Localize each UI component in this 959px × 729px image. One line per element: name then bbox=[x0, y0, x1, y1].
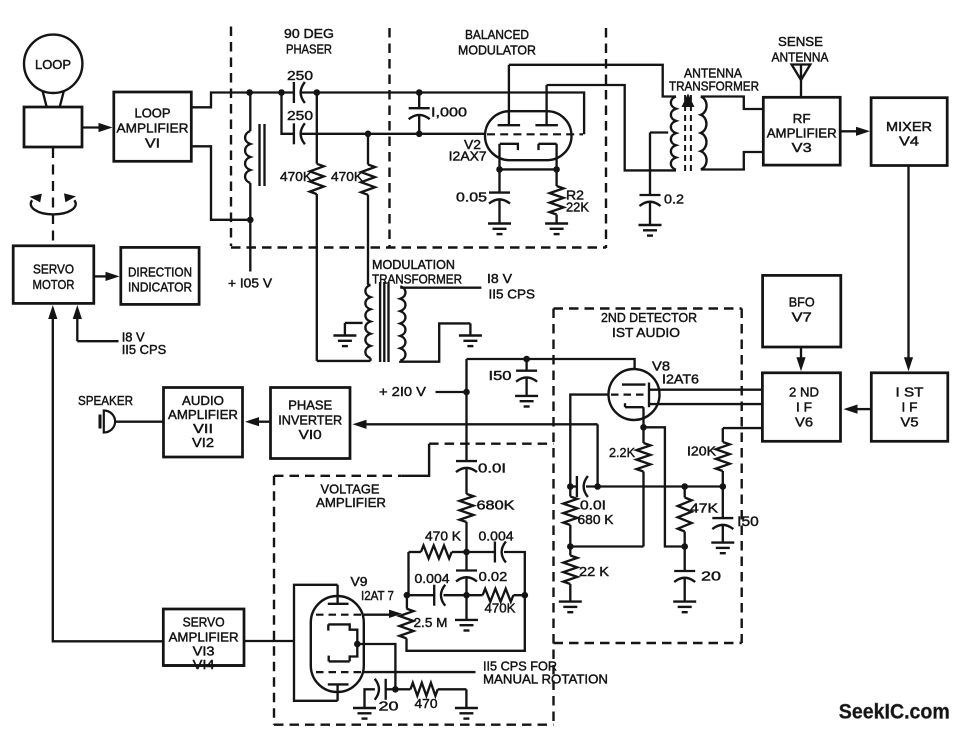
svg-text:2ND DETECTOR: 2ND DETECTOR bbox=[601, 310, 697, 325]
svg-text:TRANSFORMER: TRANSFORMER bbox=[669, 79, 759, 94]
ground bbox=[639, 224, 662, 226]
svg-text:VOLTAGE: VOLTAGE bbox=[321, 481, 380, 496]
svg-text:20: 20 bbox=[379, 699, 399, 714]
svg-text:PHASE: PHASE bbox=[288, 398, 332, 413]
V8 diode plates bbox=[648, 383, 650, 408]
node RC center bbox=[463, 592, 470, 599]
tap to 0.2 cap bbox=[650, 131, 668, 133]
svg-text:V5: V5 bbox=[901, 415, 919, 430]
V9 top plate bbox=[328, 603, 349, 605]
svg-text:DIRECTION: DIRECTION bbox=[128, 265, 192, 280]
wire cathode to 47K branch bbox=[644, 427, 685, 546]
ground bbox=[673, 600, 696, 602]
V9 bottom plate bbox=[328, 683, 349, 685]
node RC left bbox=[404, 592, 411, 599]
node 47K bottom bbox=[681, 543, 688, 550]
svg-text:MANUAL ROTATION: MANUAL ROTATION bbox=[483, 672, 608, 687]
svg-text:I50: I50 bbox=[489, 368, 512, 383]
svg-text:+ I05 V: + I05 V bbox=[228, 276, 272, 291]
V2 right cathode bbox=[537, 144, 539, 150]
2nd detector / 1st audio dashed enclosure bbox=[554, 307, 742, 309]
90 deg phaser dashed enclosure bbox=[230, 27, 232, 247]
svg-text:INVERTER: INVERTER bbox=[278, 413, 342, 428]
V8 plate bbox=[622, 383, 646, 385]
block RF AMPLIFIER V3 bbox=[763, 97, 840, 165]
svg-text:AMPLIFIER: AMPLIFIER bbox=[117, 121, 189, 136]
wire V9 upper grid to 2.5M wiper bbox=[364, 614, 391, 616]
V9 upper grid dashed bbox=[316, 614, 361, 616]
wire servo amp to V9 bbox=[244, 640, 294, 642]
wire detector node row bbox=[586, 485, 723, 487]
18V 115CPS input to servo motor bbox=[76, 319, 78, 342]
svg-text:0.05: 0.05 bbox=[456, 190, 487, 205]
capacitor 1,000 bbox=[418, 93, 420, 109]
antenna transformer secondary bbox=[701, 97, 707, 170]
svg-text:II5 CPS: II5 CPS bbox=[122, 342, 167, 357]
svg-text:90 DEG: 90 DEG bbox=[284, 26, 334, 41]
tuning arrow bbox=[682, 94, 695, 108]
antenna transformer primary bbox=[671, 97, 676, 170]
ground bbox=[455, 707, 478, 709]
node 0.01 left bbox=[567, 483, 574, 490]
voltage amplifier dashed enclosure bbox=[273, 476, 275, 725]
svg-text:IST AUDIO: IST AUDIO bbox=[612, 325, 680, 340]
svg-text:I ST: I ST bbox=[896, 385, 924, 400]
ground bbox=[333, 334, 356, 336]
svg-text:AMPLIFIER: AMPLIFIER bbox=[767, 126, 837, 141]
svg-text:SENSE: SENSE bbox=[778, 34, 823, 49]
svg-text:I8 V: I8 V bbox=[487, 271, 512, 286]
svg-text:I50: I50 bbox=[737, 513, 759, 529]
node V8 cathode bbox=[640, 424, 647, 431]
wire secondary to RF amplifier bbox=[701, 97, 764, 110]
transformer core dashed bbox=[684, 95, 686, 171]
wire mixer to 1st IF bbox=[907, 166, 909, 358]
svg-text:0.004: 0.004 bbox=[479, 529, 514, 544]
svg-text:20: 20 bbox=[701, 569, 721, 584]
svg-text:ANTENNA: ANTENNA bbox=[772, 50, 829, 65]
V9 lower grid dashed bbox=[316, 671, 361, 673]
node 0.01 right bbox=[594, 483, 601, 490]
mod transformer core line bbox=[387, 282, 389, 362]
svg-text:0.0I: 0.0I bbox=[580, 498, 606, 513]
svg-text:LOOP: LOOP bbox=[135, 106, 171, 121]
V2 grid dashed line bbox=[487, 133, 583, 135]
wire 2.2K bottom to 680K bottom bbox=[570, 545, 643, 547]
block SERVO MOTOR bbox=[13, 246, 94, 304]
svg-text:47K: 47K bbox=[690, 501, 718, 516]
wire V2 left plate to antenna transformer top bbox=[509, 65, 676, 97]
svg-text:2.5 M: 2.5 M bbox=[414, 615, 448, 630]
block BFO V7 bbox=[763, 275, 841, 347]
block 1ST IF V5 bbox=[871, 373, 948, 442]
ground bbox=[353, 707, 376, 709]
svg-text:II5 CPS: II5 CPS bbox=[489, 287, 536, 302]
dashed rotation shaft bbox=[52, 148, 54, 245]
wire loop amp upper output into phaser bbox=[191, 93, 294, 108]
block 2ND IF V6 bbox=[762, 373, 840, 442]
ground bbox=[559, 600, 582, 602]
node 150pF bbox=[523, 356, 530, 363]
loop antenna bbox=[24, 35, 82, 93]
arrow RF amp to mixer bbox=[840, 130, 856, 132]
tube V8 12AT6 envelope bbox=[609, 369, 660, 420]
svg-text:I2AT 7: I2AT 7 bbox=[361, 588, 394, 603]
speaker symbol bbox=[99, 415, 102, 429]
svg-text:0.0I: 0.0I bbox=[478, 460, 506, 475]
wires V8 diodes to 2nd IF bbox=[649, 389, 762, 391]
svg-text:680K: 680K bbox=[477, 498, 515, 513]
svg-text:+ 2I0 V: + 2I0 V bbox=[379, 384, 426, 399]
svg-text:470: 470 bbox=[415, 696, 438, 711]
svg-text:RF: RF bbox=[793, 111, 811, 126]
svg-text:I F: I F bbox=[796, 400, 812, 415]
svg-text:LOOP: LOOP bbox=[35, 57, 71, 72]
svg-text:470 K: 470 K bbox=[425, 529, 461, 544]
svg-text:V7: V7 bbox=[792, 310, 812, 325]
node cathode bias bbox=[392, 686, 399, 693]
rotation arrows bbox=[31, 200, 76, 214]
svg-text:BALANCED: BALANCED bbox=[465, 27, 529, 42]
node +210V bbox=[463, 389, 470, 396]
+105 V supply stub bbox=[249, 220, 251, 272]
svg-text:I20K: I20K bbox=[687, 444, 716, 459]
V2 right plate bbox=[535, 124, 558, 126]
tube V2 12AX7 envelope bbox=[485, 111, 572, 160]
arrow phase inverter to audio amplifier bbox=[259, 421, 271, 423]
node 120K bottom bbox=[720, 483, 727, 490]
svg-text:22K: 22K bbox=[566, 200, 589, 215]
svg-text:2 ND: 2 ND bbox=[789, 385, 819, 400]
block DIRECTION INDICATOR bbox=[121, 247, 199, 304]
wire cathode bus bbox=[500, 168, 557, 170]
node 1000pF top bbox=[416, 89, 423, 96]
wire secondary top to 18V 115 CPS source bbox=[400, 287, 481, 289]
wire 470K left to primary bottom bbox=[317, 360, 371, 362]
svg-text:0.2: 0.2 bbox=[664, 192, 684, 207]
V8 grid wire to volume control bbox=[570, 395, 608, 487]
V8 cathode bbox=[624, 403, 626, 407]
node R2 bbox=[553, 166, 560, 173]
block SERVO AMPLIFIER V13 V14 bbox=[163, 609, 244, 666]
block LOOP AMPLIFIER V1 bbox=[114, 92, 192, 161]
node 1000pF bottom bbox=[416, 131, 423, 138]
ground bbox=[711, 541, 734, 543]
ground bbox=[459, 334, 482, 336]
V2 left cathode bbox=[500, 144, 518, 150]
svg-text:SeekIC.com: SeekIC.com bbox=[839, 699, 950, 723]
V9 cathodes bbox=[327, 624, 329, 630]
ground RC center bbox=[465, 595, 467, 620]
svg-text:VI0: VI0 bbox=[299, 427, 322, 442]
svg-text:2.2K: 2.2K bbox=[609, 445, 635, 460]
node 47K top bbox=[681, 483, 688, 490]
svg-text:MIXER: MIXER bbox=[886, 119, 932, 134]
svg-text:I2AX7: I2AX7 bbox=[449, 149, 487, 164]
block AUDIO AMPLIFIER V11 V12 bbox=[164, 388, 243, 458]
svg-text:I2AT6: I2AT6 bbox=[662, 372, 699, 387]
V2 left plate bbox=[498, 124, 520, 126]
svg-text:AUDIO: AUDIO bbox=[182, 393, 224, 408]
svg-text:VII: VII bbox=[193, 421, 213, 436]
svg-text:V3: V3 bbox=[792, 140, 812, 155]
svg-text:I F: I F bbox=[902, 400, 918, 415]
svg-text:250: 250 bbox=[287, 108, 313, 123]
svg-text:0.02: 0.02 bbox=[479, 569, 508, 584]
tube V9 12AT7 envelope bbox=[311, 596, 364, 692]
wire V2 right plate to antenna transformer bottom bbox=[547, 85, 676, 170]
svg-text:MODULATOR: MODULATOR bbox=[458, 43, 536, 58]
node 22K top bbox=[567, 543, 574, 550]
wire V9 lower grid manual rotation input bbox=[364, 671, 476, 673]
svg-text:SPEAKER: SPEAKER bbox=[78, 393, 133, 408]
svg-text:INDICATOR: INDICATOR bbox=[128, 280, 192, 295]
svg-text:BFO: BFO bbox=[789, 295, 815, 310]
svg-text:I,000: I,000 bbox=[431, 105, 467, 120]
node RC top bbox=[463, 549, 470, 556]
node 470K left top bbox=[314, 89, 321, 96]
wire phaser lower output to V2 grid bbox=[302, 133, 487, 135]
wire V9 cathode to 20/470 node bbox=[357, 644, 395, 689]
V9 plate loop wire bbox=[294, 585, 338, 701]
svg-text:SERVO: SERVO bbox=[183, 615, 225, 630]
loop base bbox=[24, 107, 82, 147]
arrow 1st IF to 2nd IF bbox=[857, 408, 871, 410]
svg-text:MOTOR: MOTOR bbox=[33, 277, 75, 292]
capacitor 0.2 bbox=[640, 194, 661, 196]
inductor core line bbox=[258, 124, 260, 186]
node V9 cathodes bbox=[354, 641, 361, 648]
svg-text:TRANSFORMER: TRANSFORMER bbox=[372, 272, 462, 287]
ground bbox=[455, 619, 478, 621]
svg-text:22 K: 22 K bbox=[579, 564, 609, 579]
svg-text:0.004: 0.004 bbox=[415, 571, 450, 586]
node +105V tap bbox=[247, 217, 254, 224]
inductor core line bbox=[263, 124, 265, 186]
node 0.05 cap bbox=[496, 166, 503, 173]
modulation transformer secondary bbox=[400, 286, 405, 360]
mod transformer core line bbox=[379, 282, 381, 362]
grounded tap bbox=[345, 322, 363, 324]
arrow detector audio to phase inverter bbox=[366, 423, 598, 425]
wire +210 rail to V8 plate bbox=[467, 359, 635, 385]
node RC right bbox=[522, 592, 529, 599]
sense antenna symbol bbox=[792, 65, 811, 81]
balanced modulator dashed enclosure bbox=[605, 28, 607, 248]
svg-text:V4: V4 bbox=[899, 134, 919, 149]
mod transformer core line bbox=[383, 282, 385, 362]
ground bbox=[488, 222, 511, 224]
wire loop to loop amplifier with arrow bbox=[83, 126, 100, 128]
svg-text:250: 250 bbox=[287, 68, 313, 83]
svg-text:AMPLIFIER: AMPLIFIER bbox=[168, 407, 238, 422]
wire speaker to audio amplifier bbox=[115, 421, 164, 423]
feedback wire servo amplifier to servo motor bbox=[53, 319, 164, 642]
svg-text:AMPLIFIER: AMPLIFIER bbox=[316, 495, 386, 510]
svg-text:SERVO: SERVO bbox=[33, 262, 74, 277]
svg-text:VI: VI bbox=[145, 136, 160, 151]
node to second 250 cap bbox=[278, 89, 285, 96]
block PHASE INVERTER V10 bbox=[271, 388, 351, 459]
node phaser inductor top bbox=[246, 89, 253, 96]
V8 grid dashed bbox=[611, 394, 647, 396]
arrow servo motor to direction indicator bbox=[94, 275, 106, 277]
block MIXER V4 bbox=[871, 98, 947, 166]
modulation transformer primary bbox=[365, 285, 370, 358]
wire secondary bottom to ground bbox=[400, 323, 470, 361]
ground bbox=[515, 395, 538, 397]
svg-text:V9: V9 bbox=[351, 574, 368, 589]
arrow BFO to 2nd IF bbox=[800, 347, 802, 358]
svg-text:680 K: 680 K bbox=[578, 512, 614, 527]
node 470K right top bbox=[365, 131, 372, 138]
svg-text:VI2: VI2 bbox=[192, 435, 214, 450]
svg-text:AMPLIFIER: AMPLIFIER bbox=[169, 630, 239, 645]
phaser inductor bbox=[249, 93, 251, 132]
svg-text:MODULATION: MODULATION bbox=[372, 257, 455, 272]
wire loop amp lower output bbox=[191, 146, 250, 220]
ground bbox=[545, 222, 568, 224]
svg-text:PHASER: PHASER bbox=[286, 42, 332, 57]
svg-text:V6: V6 bbox=[795, 415, 813, 430]
